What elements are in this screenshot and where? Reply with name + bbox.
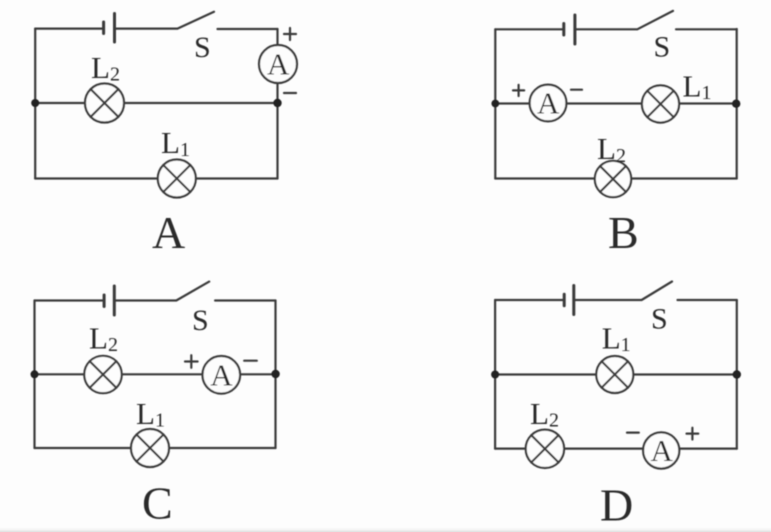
svg-text:A: A bbox=[210, 357, 233, 392]
svg-text:A: A bbox=[267, 47, 290, 82]
svg-text:S: S bbox=[651, 303, 668, 336]
svg-text:A: A bbox=[651, 433, 674, 468]
svg-text:C: C bbox=[142, 478, 173, 529]
svg-text:A: A bbox=[152, 207, 185, 258]
svg-text:A: A bbox=[537, 86, 560, 121]
svg-text:B: B bbox=[608, 207, 639, 258]
svg-text:S: S bbox=[192, 304, 209, 337]
svg-text:S: S bbox=[194, 31, 211, 64]
svg-text:D: D bbox=[600, 480, 633, 531]
svg-text:S: S bbox=[654, 31, 671, 64]
